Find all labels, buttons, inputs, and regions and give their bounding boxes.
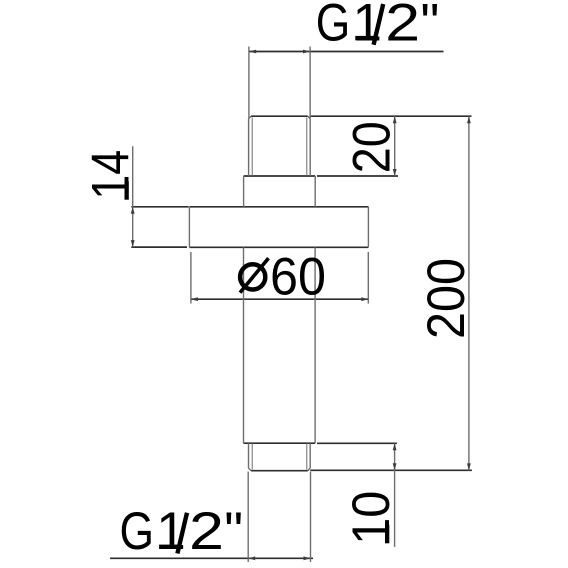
svg-text:20: 20 <box>342 121 401 173</box>
svg-text:G: G <box>120 502 155 561</box>
svg-text:": " <box>421 0 440 52</box>
svg-text:2: 2 <box>189 502 224 561</box>
svg-text:": " <box>224 502 243 561</box>
svg-text:14: 14 <box>82 150 141 200</box>
svg-text:60: 60 <box>270 248 326 307</box>
svg-text:200: 200 <box>417 258 476 339</box>
svg-text:10: 10 <box>342 491 401 545</box>
svg-text:2: 2 <box>385 0 420 52</box>
svg-text:G: G <box>316 0 351 52</box>
